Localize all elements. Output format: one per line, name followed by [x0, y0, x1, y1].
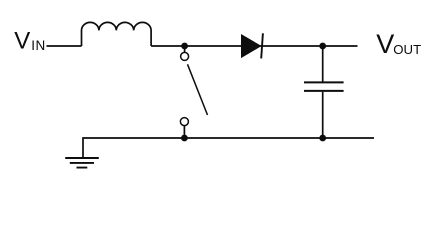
svg-text:IN: IN: [31, 38, 46, 53]
svg-text:V: V: [14, 28, 30, 55]
svg-text:OUT: OUT: [393, 42, 421, 57]
svg-text:V: V: [376, 29, 394, 59]
